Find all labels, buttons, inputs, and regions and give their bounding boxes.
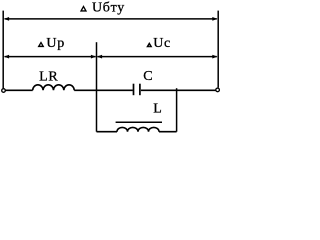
extension line right	[217, 11, 219, 88]
svg-text:LR: LR	[39, 69, 58, 84]
svg-text:Up: Up	[46, 36, 65, 51]
terminal right	[216, 88, 220, 92]
extension line middle (node between LR and C, down to bottom branch)	[96, 42, 98, 132]
terminal left	[2, 89, 6, 93]
inductor L	[117, 127, 159, 131]
wire (LR to capacitor, through middle node)	[74, 89, 133, 91]
wire (bottom branch right)	[159, 131, 177, 133]
svg-text:C: C	[143, 69, 152, 84]
label ΔUp	[38, 41, 45, 47]
wire (right node down to bottom branch)	[176, 88, 178, 132]
wire (capacitor to right terminal, through right node)	[141, 89, 216, 91]
inductor LR	[33, 85, 75, 90]
dimension line ΔUc	[98, 56, 217, 58]
dimension line ΔUp	[5, 56, 96, 58]
label ΔUбту	[80, 5, 87, 12]
capacitor C	[133, 84, 135, 96]
extension line left	[2, 11, 4, 89]
dimension line ΔUбту	[5, 18, 217, 20]
svg-text:L: L	[153, 102, 162, 117]
core line of inductor L	[116, 121, 162, 123]
svg-text:Uбту: Uбту	[92, 1, 125, 16]
wire (left terminal to LR)	[6, 89, 33, 91]
svg-text:Uc: Uc	[153, 36, 171, 51]
label ΔUc	[146, 42, 152, 47]
wire (bottom branch left)	[97, 131, 118, 133]
